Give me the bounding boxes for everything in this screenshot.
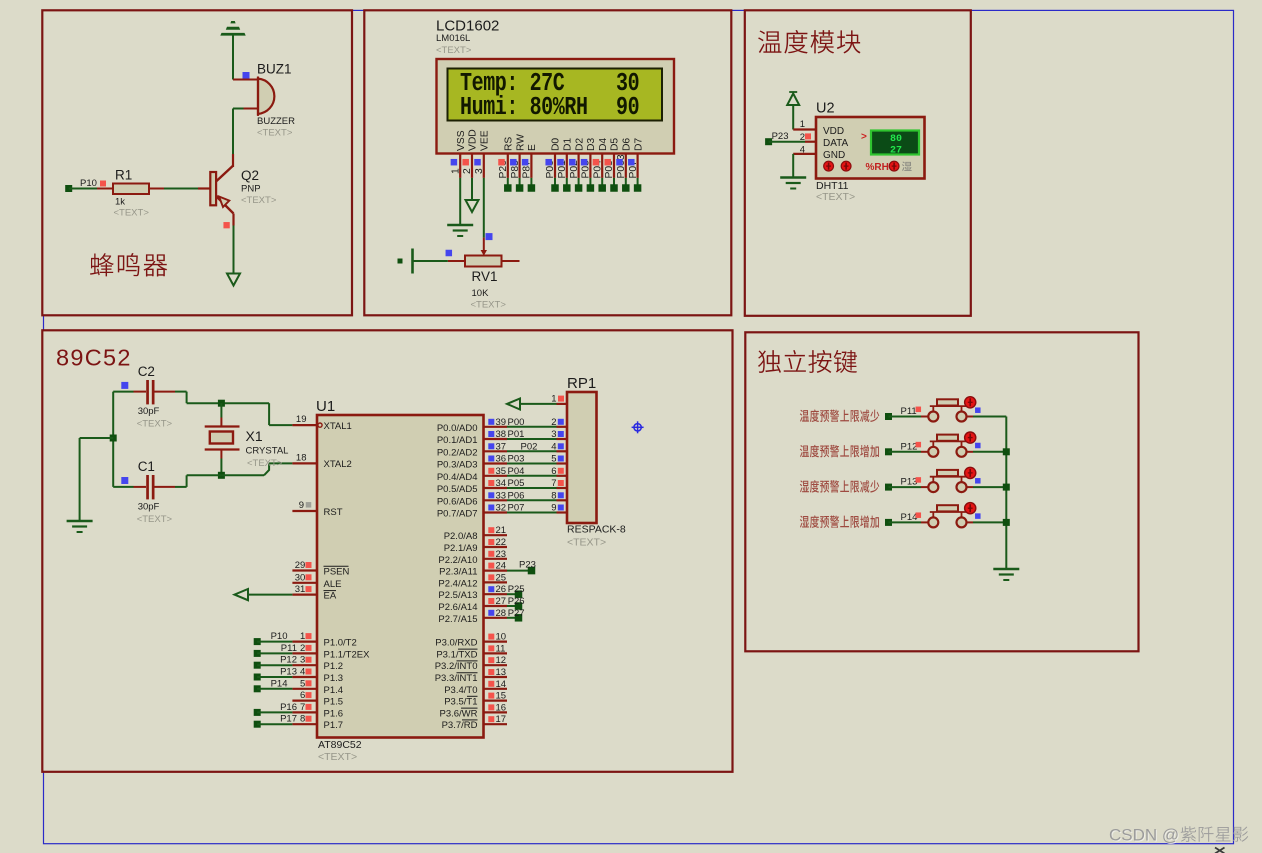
svg-text:<TEXT>: <TEXT> bbox=[241, 195, 277, 206]
svg-text:P1.4: P1.4 bbox=[324, 685, 344, 696]
svg-text:%RH: %RH bbox=[866, 162, 889, 173]
svg-text:32: 32 bbox=[496, 503, 507, 514]
svg-text:8: 8 bbox=[300, 714, 305, 725]
svg-text:<TEXT>: <TEXT> bbox=[247, 458, 283, 469]
svg-text:E: E bbox=[527, 144, 538, 151]
svg-text:19: 19 bbox=[296, 414, 307, 425]
svg-text:7: 7 bbox=[551, 478, 556, 489]
svg-text:>: > bbox=[861, 132, 867, 143]
svg-text:P1.6: P1.6 bbox=[324, 708, 344, 719]
svg-text:P2.5/A13: P2.5/A13 bbox=[438, 590, 477, 601]
svg-text:5: 5 bbox=[551, 454, 556, 465]
svg-text:P1.3: P1.3 bbox=[324, 673, 344, 684]
svg-text:21: 21 bbox=[496, 525, 507, 536]
svg-text:P063: P063 bbox=[616, 154, 627, 178]
svg-text:P0.0/AD0: P0.0/AD0 bbox=[437, 423, 478, 434]
svg-text:3: 3 bbox=[300, 655, 305, 666]
svg-text:33: 33 bbox=[496, 490, 507, 501]
svg-text:D2: D2 bbox=[574, 138, 585, 151]
svg-text:LCD1602: LCD1602 bbox=[436, 18, 499, 35]
svg-text:34: 34 bbox=[496, 478, 507, 489]
svg-text:23: 23 bbox=[496, 549, 507, 560]
svg-text:39: 39 bbox=[496, 417, 507, 428]
svg-text:P0.1/AD1: P0.1/AD1 bbox=[437, 435, 478, 446]
svg-text:D6: D6 bbox=[622, 138, 633, 151]
svg-text:VDD: VDD bbox=[468, 129, 479, 151]
svg-text:35: 35 bbox=[496, 466, 507, 477]
svg-text:P13: P13 bbox=[901, 477, 918, 488]
svg-text:37: 37 bbox=[496, 441, 507, 452]
svg-text:9: 9 bbox=[551, 503, 556, 514]
svg-text:BUZZER: BUZZER bbox=[257, 116, 295, 127]
svg-text:30pF: 30pF bbox=[138, 406, 160, 417]
svg-text:10: 10 bbox=[496, 632, 507, 643]
svg-text:P2.2/A10: P2.2/A10 bbox=[438, 555, 477, 566]
svg-text:<TEXT>: <TEXT> bbox=[816, 191, 855, 203]
svg-text:<TEXT>: <TEXT> bbox=[436, 45, 472, 56]
svg-text:24: 24 bbox=[496, 561, 507, 572]
svg-text:CRYSTAL: CRYSTAL bbox=[246, 445, 289, 456]
svg-text:17: 17 bbox=[496, 714, 507, 725]
svg-text:P1.0/T2: P1.0/T2 bbox=[324, 638, 357, 649]
svg-text:P14: P14 bbox=[271, 678, 288, 689]
svg-text:P2.0/A8: P2.0/A8 bbox=[444, 531, 478, 542]
svg-text:P2.3/A11: P2.3/A11 bbox=[439, 567, 477, 578]
svg-text:P1.2: P1.2 bbox=[324, 661, 344, 672]
svg-text:P11: P11 bbox=[281, 643, 297, 654]
svg-text:XTAL2: XTAL2 bbox=[324, 459, 352, 470]
svg-text:D7: D7 bbox=[633, 138, 644, 151]
svg-text:BUZ1: BUZ1 bbox=[257, 62, 292, 77]
svg-text:EA: EA bbox=[324, 591, 337, 602]
svg-text:P23: P23 bbox=[772, 131, 789, 142]
svg-text:31: 31 bbox=[295, 584, 306, 595]
svg-text:C2: C2 bbox=[138, 364, 155, 379]
svg-text:D4: D4 bbox=[598, 138, 609, 151]
svg-text:4: 4 bbox=[300, 667, 305, 678]
svg-text:29: 29 bbox=[295, 560, 306, 571]
svg-text:VDD: VDD bbox=[823, 126, 844, 137]
svg-text:90: 90 bbox=[616, 93, 639, 122]
svg-text:P2.7/A15: P2.7/A15 bbox=[438, 614, 477, 625]
svg-text:1: 1 bbox=[450, 168, 461, 174]
svg-text:13: 13 bbox=[496, 667, 507, 678]
svg-text:22: 22 bbox=[496, 537, 507, 548]
svg-text:RW: RW bbox=[515, 134, 526, 151]
svg-text:R1: R1 bbox=[115, 168, 132, 183]
svg-text:DATA: DATA bbox=[823, 138, 849, 149]
svg-text:P14: P14 bbox=[901, 512, 918, 523]
svg-text:89C52: 89C52 bbox=[56, 345, 132, 371]
svg-text:X1: X1 bbox=[246, 428, 263, 444]
svg-text:GND: GND bbox=[823, 150, 845, 161]
svg-text:14: 14 bbox=[496, 679, 507, 690]
svg-text:36: 36 bbox=[496, 454, 507, 465]
svg-text:VSS: VSS bbox=[456, 130, 467, 151]
svg-text:<TEXT>: <TEXT> bbox=[257, 128, 293, 139]
svg-text:P0.4/AD4: P0.4/AD4 bbox=[437, 472, 478, 483]
svg-text:P23: P23 bbox=[519, 560, 536, 571]
svg-text:P10: P10 bbox=[80, 178, 97, 189]
svg-text:RST: RST bbox=[324, 507, 343, 518]
svg-text:8: 8 bbox=[551, 490, 556, 501]
svg-text:3: 3 bbox=[474, 168, 485, 174]
svg-text:P2.1/A9: P2.1/A9 bbox=[444, 543, 478, 554]
svg-text:38: 38 bbox=[496, 429, 507, 440]
svg-text:6: 6 bbox=[300, 690, 305, 701]
svg-text:4: 4 bbox=[800, 144, 805, 155]
svg-text:P3.3/INT1: P3.3/INT1 bbox=[435, 673, 478, 684]
svg-text:P3.1/TXD: P3.1/TXD bbox=[436, 649, 477, 660]
svg-text:28: 28 bbox=[496, 608, 507, 619]
svg-text:16: 16 bbox=[496, 702, 507, 713]
svg-text:U1: U1 bbox=[316, 398, 335, 415]
svg-text:11: 11 bbox=[496, 643, 506, 654]
svg-text:ALE: ALE bbox=[324, 579, 342, 590]
svg-text:5: 5 bbox=[300, 678, 305, 689]
svg-text:1k: 1k bbox=[115, 197, 125, 208]
svg-text:P3.0/RXD: P3.0/RXD bbox=[435, 638, 477, 649]
svg-text:PSEN: PSEN bbox=[324, 567, 350, 578]
svg-text:D5: D5 bbox=[610, 138, 621, 151]
svg-text:15: 15 bbox=[496, 691, 507, 702]
svg-text:25: 25 bbox=[496, 572, 507, 583]
svg-text:18: 18 bbox=[296, 452, 307, 463]
svg-text:1: 1 bbox=[551, 394, 556, 405]
svg-text:P0.6/AD6: P0.6/AD6 bbox=[437, 496, 478, 507]
svg-text:RESPACK-8: RESPACK-8 bbox=[567, 524, 626, 536]
svg-text:P3.2/INT0: P3.2/INT0 bbox=[435, 661, 478, 672]
svg-text:P1.7: P1.7 bbox=[324, 720, 344, 731]
svg-text:2: 2 bbox=[300, 643, 305, 654]
svg-text:<TEXT>: <TEXT> bbox=[567, 537, 606, 549]
svg-text:P26: P26 bbox=[508, 596, 525, 607]
svg-text:P3.6/WR: P3.6/WR bbox=[439, 708, 477, 719]
svg-text:2: 2 bbox=[462, 168, 473, 174]
svg-text:CSDN @: CSDN @ bbox=[1109, 826, 1179, 845]
svg-text:P0.5/AD5: P0.5/AD5 bbox=[437, 484, 478, 495]
svg-text:P25: P25 bbox=[508, 584, 525, 595]
svg-text:9: 9 bbox=[299, 500, 304, 511]
svg-text:P2.6/A14: P2.6/A14 bbox=[438, 602, 477, 613]
svg-text:P12: P12 bbox=[901, 441, 918, 452]
svg-text:10K: 10K bbox=[472, 288, 490, 299]
svg-text:P16: P16 bbox=[280, 702, 297, 713]
svg-text:D0: D0 bbox=[551, 138, 562, 151]
svg-text:P10: P10 bbox=[271, 631, 288, 642]
svg-text:P0.3/AD3: P0.3/AD3 bbox=[437, 460, 478, 471]
svg-text:27: 27 bbox=[496, 596, 507, 607]
svg-text:1: 1 bbox=[300, 631, 305, 642]
svg-text:P11: P11 bbox=[901, 406, 917, 417]
svg-text:Q2: Q2 bbox=[241, 168, 259, 183]
svg-text:P0.2/AD2: P0.2/AD2 bbox=[437, 447, 478, 458]
svg-text:<TEXT>: <TEXT> bbox=[318, 751, 357, 763]
svg-text:80: 80 bbox=[890, 134, 902, 145]
svg-text:P12: P12 bbox=[280, 655, 297, 666]
svg-text:4: 4 bbox=[551, 441, 556, 452]
svg-text:7: 7 bbox=[300, 702, 305, 713]
svg-text:AT89C52: AT89C52 bbox=[318, 739, 362, 751]
svg-text:<TEXT>: <TEXT> bbox=[471, 300, 507, 311]
svg-text:<TEXT>: <TEXT> bbox=[137, 419, 173, 430]
svg-text:RV1: RV1 bbox=[472, 269, 498, 284]
svg-text:2: 2 bbox=[551, 417, 556, 428]
svg-text:Humi: 80%RH: Humi: 80%RH bbox=[460, 93, 588, 122]
svg-text:P3.7/RD: P3.7/RD bbox=[442, 720, 478, 731]
svg-text:P1.5: P1.5 bbox=[324, 697, 344, 708]
svg-text:P3.5/T1: P3.5/T1 bbox=[444, 697, 477, 708]
svg-text:P1.1/T2EX: P1.1/T2EX bbox=[324, 649, 371, 660]
svg-text:6: 6 bbox=[551, 466, 556, 477]
svg-text:D3: D3 bbox=[586, 138, 597, 151]
svg-text:P27: P27 bbox=[508, 608, 525, 619]
svg-text:2: 2 bbox=[800, 132, 805, 143]
svg-text:P0.7/AD7: P0.7/AD7 bbox=[437, 509, 478, 520]
svg-text:RS: RS bbox=[504, 137, 515, 151]
svg-text:P17: P17 bbox=[280, 714, 297, 725]
svg-text:<TEXT>: <TEXT> bbox=[114, 208, 150, 219]
svg-text:VEE: VEE bbox=[480, 130, 491, 151]
svg-text:12: 12 bbox=[496, 655, 507, 666]
svg-text:C1: C1 bbox=[138, 459, 155, 474]
svg-text:P3.4/T0: P3.4/T0 bbox=[444, 685, 477, 696]
svg-text:1: 1 bbox=[800, 119, 805, 130]
svg-text:P2.4/A12: P2.4/A12 bbox=[438, 578, 477, 589]
svg-text:LM016L: LM016L bbox=[436, 33, 470, 44]
svg-text:RP1: RP1 bbox=[567, 375, 596, 392]
svg-text:26: 26 bbox=[496, 584, 507, 595]
svg-text:D1: D1 bbox=[563, 138, 574, 151]
svg-text:<TEXT>: <TEXT> bbox=[137, 514, 173, 525]
svg-text:P13: P13 bbox=[280, 667, 297, 678]
svg-text:30pF: 30pF bbox=[138, 502, 160, 513]
svg-text:PNP: PNP bbox=[241, 184, 261, 195]
svg-text:27: 27 bbox=[890, 146, 902, 157]
svg-text:30: 30 bbox=[295, 572, 306, 583]
svg-text:3: 3 bbox=[551, 429, 556, 440]
svg-text:U2: U2 bbox=[816, 101, 835, 117]
svg-text:XTAL1: XTAL1 bbox=[324, 421, 352, 432]
